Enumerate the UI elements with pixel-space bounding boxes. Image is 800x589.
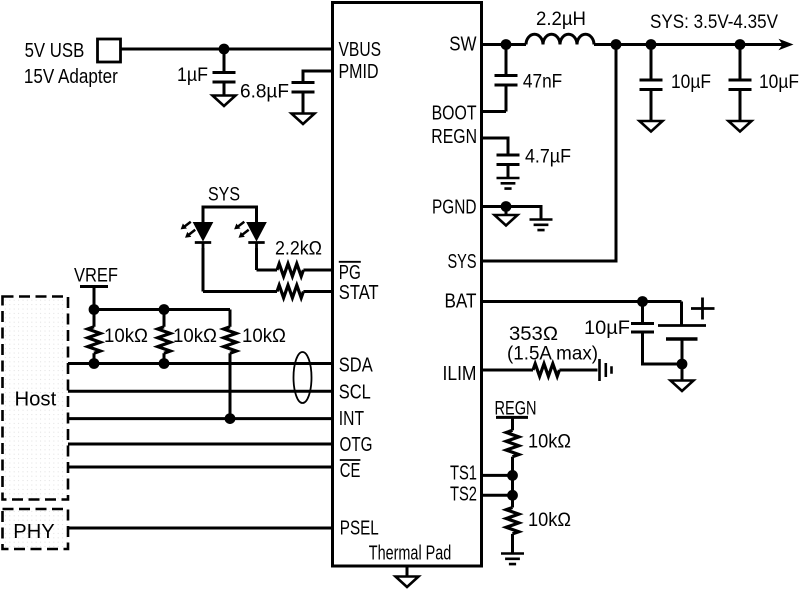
svg-text:5V USB: 5V USB xyxy=(25,40,85,62)
junction dot rail/R3 xyxy=(89,304,100,315)
junction dot C6 xyxy=(735,39,746,50)
capacitor C1 1uF xyxy=(213,49,236,96)
capacitor C4 4.7uF xyxy=(497,155,520,178)
junction dot TS2 xyxy=(507,490,518,501)
wire D1 cathode to STAT xyxy=(202,248,205,292)
LED D1 xyxy=(181,207,213,251)
resistor R8 10k (TS2 lower) xyxy=(506,508,519,554)
wire VREF rail xyxy=(94,308,230,311)
resistor R2 (STAT) xyxy=(203,285,333,298)
ground (battery) xyxy=(671,364,694,391)
ground (C6) xyxy=(729,121,752,132)
junction dot C5 xyxy=(646,39,657,50)
svg-text:VBUS: VBUS xyxy=(339,39,382,61)
svg-text:2.2kΩ: 2.2kΩ xyxy=(275,239,322,260)
svg-text:Thermal Pad: Thermal Pad xyxy=(369,543,452,565)
svg-text:SYS: SYS xyxy=(208,185,240,206)
wire VBUS rail xyxy=(121,48,333,51)
capacitor C3 47nF (BOOT) xyxy=(482,45,518,112)
wire SDA xyxy=(68,362,333,365)
svg-text:ILIM: ILIM xyxy=(443,363,477,385)
svg-text:353Ω: 353Ω xyxy=(509,324,558,345)
battery BT1 xyxy=(658,302,706,365)
junction dot VBUS/C1 xyxy=(219,44,230,55)
svg-text:BAT: BAT xyxy=(445,291,477,313)
junction dot R5/INT xyxy=(225,413,236,424)
wire TS2 lead xyxy=(482,494,513,497)
ground (C5) xyxy=(640,121,663,132)
svg-text:4.7µF: 4.7µF xyxy=(525,147,571,168)
svg-text:SW: SW xyxy=(449,34,476,56)
capacitor C7 10uF (BAT) xyxy=(631,302,682,365)
capacitor C5 10uF xyxy=(640,45,663,122)
junction dot PGND xyxy=(501,201,512,212)
junction dot battery/C7 bottom xyxy=(677,359,688,370)
wire REGN lead xyxy=(482,138,509,155)
svg-text:10kΩ: 10kΩ xyxy=(242,326,286,347)
ground (thermal pad) xyxy=(396,577,419,588)
svg-text:STAT: STAT xyxy=(339,282,379,304)
junction dot BAT/C7 xyxy=(637,296,648,307)
svg-text:10µF: 10µF xyxy=(759,72,799,93)
net label REGN xyxy=(495,399,537,420)
svg-text:2.2µH: 2.2µH xyxy=(536,9,586,30)
svg-text:10kΩ: 10kΩ xyxy=(528,510,571,531)
LED D2 xyxy=(234,207,266,251)
svg-text:INT: INT xyxy=(339,408,364,430)
svg-text:OTG: OTG xyxy=(340,434,373,456)
svg-text:REGN: REGN xyxy=(431,126,477,148)
ground (ILIM, rotated signal) xyxy=(600,359,612,381)
junction dot SW/C3 xyxy=(501,39,512,50)
resistor R1 2.2k (PG) xyxy=(257,264,333,277)
svg-text:10kΩ: 10kΩ xyxy=(104,326,148,347)
svg-text:SCL: SCL xyxy=(339,382,371,404)
resistor R5 10k (INT pullup) xyxy=(224,310,237,419)
wire BAT rail xyxy=(482,300,682,303)
svg-text:SDA: SDA xyxy=(339,355,373,377)
svg-text:PSEL: PSEL xyxy=(340,518,379,540)
ground (C1) xyxy=(213,96,236,107)
wire SW lead xyxy=(482,43,527,46)
Host block xyxy=(3,297,69,500)
svg-text:CE: CE xyxy=(340,460,361,482)
svg-text:10µF: 10µF xyxy=(671,72,711,93)
junction dot L1 out / SYS vert xyxy=(611,39,622,50)
svg-text:(1.5A max): (1.5A max) xyxy=(507,344,598,365)
capacitor C2 6.8uF xyxy=(292,83,315,114)
svg-text:15V Adapter: 15V Adapter xyxy=(24,66,118,88)
input connector J1 (5V USB / 15V adapter) xyxy=(98,39,121,62)
junction dot TS1 xyxy=(507,470,518,481)
pin label PG (active low, overline) xyxy=(339,262,361,284)
svg-text:10kΩ: 10kΩ xyxy=(528,432,571,453)
svg-text:6.8µF: 6.8µF xyxy=(240,82,289,103)
resistor R7 10k (TS1 upper) xyxy=(506,417,519,475)
ground (C2) xyxy=(292,114,315,125)
wire PMID lead xyxy=(303,71,333,83)
ground (PGND arrow) xyxy=(495,207,518,226)
wire TS1 lead xyxy=(482,474,513,477)
wire SYS output rail xyxy=(594,43,787,46)
resistor R3 10k (SDA pullup) xyxy=(88,310,101,364)
svg-text:VREF: VREF xyxy=(74,266,118,287)
twisted pair ellipse (I2C) xyxy=(294,352,312,403)
wire thermal pad stem xyxy=(406,566,409,577)
arrowhead SYS output xyxy=(779,39,794,50)
ground (TS divider, signal) xyxy=(501,554,524,565)
svg-text:PMID: PMID xyxy=(339,61,379,83)
svg-text:TS2: TS2 xyxy=(450,484,477,506)
junction dot rail/R4 xyxy=(159,304,170,315)
junction dot R4/SDA xyxy=(159,358,170,369)
ground (PGND signal) xyxy=(530,220,553,231)
junction dot R3/SDA xyxy=(89,358,100,369)
svg-text:SYS: 3.5V-4.35V: SYS: 3.5V-4.35V xyxy=(650,12,778,33)
svg-text:TS1: TS1 xyxy=(450,463,477,485)
resistor R4 10k (SCL pullup) xyxy=(158,310,171,364)
wire TS1-TS2 link xyxy=(511,475,514,507)
wire LED top rail xyxy=(203,207,257,223)
wire CE xyxy=(68,466,333,469)
svg-text:1µF: 1µF xyxy=(177,65,208,86)
battery plus sign xyxy=(691,298,715,320)
IC U1 (charger IC body) xyxy=(333,3,482,567)
inductor L1 2.2uH xyxy=(526,34,594,44)
wire VREF stem xyxy=(93,287,96,310)
wire PSEL xyxy=(68,527,333,530)
svg-text:47nF: 47nF xyxy=(523,72,562,93)
PHY block xyxy=(3,509,69,549)
svg-text:PHY: PHY xyxy=(13,521,54,543)
wire OTG xyxy=(68,443,333,446)
svg-text:PG: PG xyxy=(339,262,361,284)
svg-text:10µF: 10µF xyxy=(584,318,630,339)
wire PGND lead xyxy=(482,207,542,220)
pin label CE (active low, overline) xyxy=(340,460,361,482)
capacitor C6 10uF xyxy=(729,45,752,122)
ground (C4, signal) xyxy=(497,178,520,189)
svg-text:Host: Host xyxy=(15,389,57,411)
wire SCL xyxy=(68,390,333,393)
net label VREF xyxy=(74,266,118,287)
wire SYS pin to rail xyxy=(482,45,617,262)
svg-text:SYS: SYS xyxy=(448,251,477,273)
resistor R6 353 ohm (ILIM) xyxy=(482,364,598,377)
svg-text:PGND: PGND xyxy=(432,197,477,219)
svg-text:BOOT: BOOT xyxy=(432,103,477,125)
wire INT xyxy=(68,417,333,420)
svg-text:10kΩ: 10kΩ xyxy=(173,326,217,347)
wire D2 cathode to PG xyxy=(255,248,258,270)
